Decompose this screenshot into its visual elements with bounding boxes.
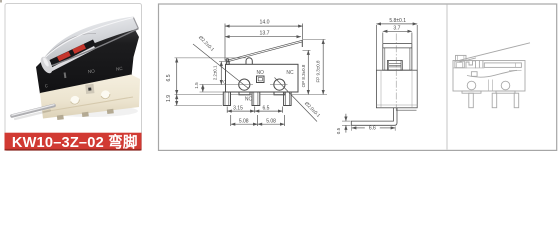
- red model banner: [5, 133, 142, 151]
- dim 6.6 line: [352, 127, 365, 129]
- corner smudge: [0, 0, 2, 3]
- plunger lower guide: [488, 80, 490, 92]
- body outline: [453, 61, 525, 92]
- photo: lever lower rail: [47, 46, 96, 73]
- plunger guide: [478, 61, 480, 68]
- hole left: [467, 81, 476, 90]
- svg-text:NO: NO: [256, 70, 264, 76]
- dim 3.15 / 6.5 line: [227, 110, 255, 112]
- boss left: [239, 92, 250, 95]
- svg-text:6.5: 6.5: [263, 105, 270, 111]
- photo: loose bent pin rod shadow: [15, 111, 50, 120]
- dim OP vertical: [307, 50, 309, 94]
- pin 2: [252, 92, 260, 106]
- ext body bottom short: [200, 91, 226, 93]
- svg-text:13.7: 13.7: [259, 30, 269, 36]
- svg-text:C: C: [223, 79, 226, 84]
- photo: plunger window on body: [85, 84, 94, 94]
- photo: pin stubs under base: [57, 115, 64, 120]
- pin 2: [492, 93, 497, 108]
- pivot block: [455, 61, 464, 68]
- svg-text:1.5: 1.5: [194, 82, 199, 89]
- svg-text:3.7: 3.7: [393, 26, 400, 32]
- center square window: [257, 76, 265, 83]
- svg-text:14.0: 14.0: [259, 20, 269, 26]
- photo: red parts in slot: [57, 51, 71, 61]
- boss right: [274, 92, 285, 95]
- ext verticals for 5.08: [230, 115, 232, 126]
- dim 6.5 vertical: [176, 58, 178, 95]
- center line: [395, 34, 397, 112]
- photo: lever slot: [50, 40, 96, 66]
- photo: switch black body: [36, 26, 139, 94]
- ext verticals for 3.15/6.5: [226, 107, 228, 113]
- dim 0.5 arrows: [345, 114, 347, 121]
- photo: lever curl at pivot: [38, 55, 54, 75]
- leader dia 2.2: [193, 44, 249, 89]
- divider between drawing panels: [446, 5, 448, 150]
- dim 5.8 line: [376, 23, 417, 25]
- flat spring: [484, 63, 521, 68]
- lever anchor block: [226, 62, 229, 64]
- mounting hole left: [239, 79, 250, 90]
- switch body outline: [226, 64, 299, 92]
- photo: loose bent pin rod: [12, 106, 54, 117]
- svg-text:NO: NO: [245, 97, 253, 103]
- curved spring: [467, 70, 517, 77]
- top view head rect: [383, 44, 412, 71]
- plunger dome: [246, 58, 252, 65]
- bosses: [462, 91, 481, 93]
- plunger stack: [387, 61, 402, 71]
- pin 3: [514, 93, 519, 108]
- left product card border: [5, 4, 142, 151]
- lever arm double line: [227, 40, 303, 60]
- ext plunger top level: [175, 57, 247, 59]
- ext ticks 0.5: [342, 120, 351, 122]
- dim FP vertical: [322, 39, 324, 94]
- small boss right: [397, 109, 417, 111]
- lever pivot circle: [226, 59, 229, 62]
- svg-text:5.08: 5.08: [266, 118, 276, 124]
- hole right: [501, 81, 510, 90]
- pin 3: [284, 92, 292, 106]
- svg-text:NC: NC: [286, 70, 294, 76]
- hole centerline right: [270, 84, 288, 86]
- ext lever pivot level: [219, 61, 228, 63]
- lever tip edge: [301, 40, 303, 47]
- pin 1: [469, 93, 474, 108]
- ext verticals 6.6: [351, 126, 353, 131]
- photo: base boss circles: [70, 96, 79, 105]
- plunger bump: [456, 55, 467, 60]
- dim 14.0 line: [225, 25, 303, 27]
- dim 3.7 line: [383, 30, 412, 32]
- svg-text:1.9: 1.9: [166, 95, 172, 102]
- ext pin bottom: [175, 105, 223, 107]
- svg-text:OP 8.3±0.8: OP 8.3±0.8: [301, 64, 306, 87]
- leader dia 2.0: [275, 78, 318, 122]
- bent pin L shape: [351, 108, 397, 126]
- dim 1.9 vertical: [176, 95, 178, 106]
- lever line: [460, 43, 531, 61]
- ext lever tip top (FP): [303, 38, 326, 40]
- hole centerline left: [200, 84, 254, 86]
- ext mounting plane: [175, 94, 224, 96]
- photo: metal lever blade: [44, 17, 139, 66]
- svg-text:0.5: 0.5: [336, 127, 341, 134]
- photo: cream base: [40, 75, 140, 119]
- side body rect: [376, 70, 417, 108]
- pin 1: [223, 92, 230, 106]
- svg-text:6.6: 6.6: [369, 126, 376, 132]
- svg-text:NO: NO: [88, 68, 96, 74]
- svg-text:3.15: 3.15: [233, 105, 243, 111]
- ext line left: [224, 24, 226, 61]
- svg-text:6.5: 6.5: [166, 74, 172, 81]
- photo: body emblem stub: [64, 72, 67, 78]
- svg-text:FP 9.3±0.8: FP 9.3±0.8: [315, 60, 320, 82]
- dim 5.08 lines: [231, 123, 258, 125]
- photo: shadow under switch: [42, 105, 138, 117]
- ext verticals 3.7: [382, 33, 384, 44]
- mounting hole right: [274, 79, 285, 90]
- hinge clip: [466, 61, 476, 69]
- svg-text:KW10–3Z–02 弯脚: KW10–3Z–02 弯脚: [12, 133, 138, 151]
- ext lever tip bottom (OP): [303, 49, 311, 51]
- ext line right tip: [302, 24, 304, 40]
- svg-text:2.2±0.1: 2.2±0.1: [213, 65, 218, 80]
- drawing area outer box: [159, 4, 557, 150]
- dim 13.7 line: [225, 36, 301, 38]
- dim 1.5 vertical: [202, 84, 204, 92]
- ext verticals 5.8: [375, 25, 377, 70]
- dim 2.2 vertical: [220, 62, 222, 85]
- svg-text:5.08: 5.08: [239, 118, 249, 124]
- inner top wall line: [453, 67, 484, 69]
- svg-text:5.8±0.1: 5.8±0.1: [389, 18, 406, 24]
- block on spring: [471, 72, 477, 77]
